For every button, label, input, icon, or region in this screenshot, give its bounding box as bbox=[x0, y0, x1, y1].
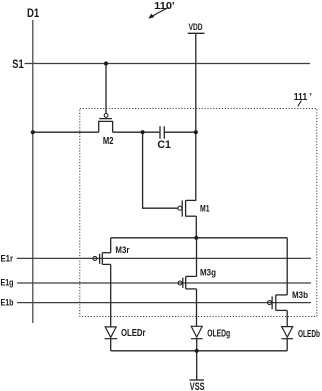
svg-text:M3b: M3b bbox=[292, 290, 308, 300]
svg-text:M3r: M3r bbox=[115, 245, 129, 255]
svg-text:M1: M1 bbox=[200, 204, 210, 214]
svg-text:M2: M2 bbox=[103, 135, 114, 147]
svg-text:E1r: E1r bbox=[1, 254, 14, 264]
svg-text:D1: D1 bbox=[27, 8, 40, 20]
svg-text:110': 110' bbox=[154, 0, 175, 12]
svg-text:VDD: VDD bbox=[189, 22, 203, 32]
svg-text:111 ': 111 ' bbox=[294, 91, 312, 103]
svg-text:M3g: M3g bbox=[200, 268, 216, 278]
svg-text:C1: C1 bbox=[157, 139, 171, 151]
svg-text:VSS: VSS bbox=[190, 381, 205, 391]
svg-text:OLEDr: OLEDr bbox=[121, 327, 146, 339]
svg-text:OLEDb: OLEDb bbox=[298, 328, 320, 340]
svg-text:S1: S1 bbox=[12, 59, 24, 71]
svg-text:E1g: E1g bbox=[1, 278, 14, 288]
svg-text:OLEDg: OLEDg bbox=[207, 327, 230, 339]
svg-text:E1b: E1b bbox=[1, 297, 14, 307]
